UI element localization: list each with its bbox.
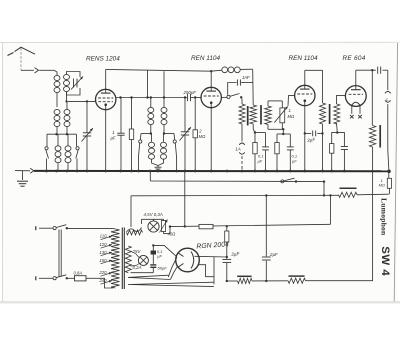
wire bus to rail3	[184, 171, 186, 228]
label 4.5V 0.3A	[144, 212, 163, 217]
svg-text:µF: µF	[157, 253, 162, 258]
svg-text:REN 1104: REN 1104	[289, 55, 318, 62]
secondary HV upper	[128, 275, 171, 279]
coil L7 RF primary	[148, 98, 154, 134]
wire anode rail L1	[106, 69, 211, 71]
capacitor C12 2uF	[222, 257, 231, 282]
wire rail2	[131, 194, 339, 196]
wire B rail c	[306, 280, 373, 282]
label 1A	[235, 147, 240, 152]
mains switch top	[39, 225, 68, 230]
wire 25V taps	[131, 251, 140, 266]
svg-text:MΩ: MΩ	[199, 134, 206, 139]
coil L9 wave band2	[149, 134, 159, 166]
wire 25V bottom	[131, 272, 154, 274]
coil L3 stage1	[54, 109, 60, 134]
resistor R2 2M grid leak	[193, 98, 197, 171]
label 0.1 uF c	[157, 249, 163, 258]
transformer core	[122, 228, 124, 290]
coil L8 RF secondary	[161, 71, 167, 133]
wire rail1	[150, 180, 324, 183]
wire V1 anode	[105, 69, 107, 89]
svg-text:RENS 1204: RENS 1204	[86, 56, 120, 63]
coil L5 wave band	[55, 134, 61, 171]
wire V4 anode	[356, 69, 374, 86]
label SW 4	[379, 246, 391, 276]
wire screen rail	[116, 96, 187, 98]
wire fuse to winding	[99, 278, 114, 288]
wire lamp feed	[127, 228, 142, 233]
switch S2b	[173, 134, 177, 171]
switch S3 regen	[221, 94, 242, 100]
filter resistor R13	[288, 276, 306, 283]
label 250pF	[183, 90, 197, 95]
wire rail1 to rail2	[323, 180, 325, 195]
wire V2 anode	[210, 70, 212, 87]
svg-text:1: 1	[289, 108, 291, 113]
transformer T2b core b	[260, 105, 262, 125]
ground symbol	[15, 171, 30, 187]
capacitor C9 2uF coupling	[305, 131, 323, 137]
label Lumophon	[380, 198, 389, 236]
switch S1a	[45, 134, 49, 171]
scan top edge	[0, 41, 400, 43]
capacitor C13 2uF	[262, 194, 271, 282]
coil L2 antenna secondary	[64, 72, 81, 96]
antenna plug	[35, 68, 55, 73]
svg-text:REN 1104: REN 1104	[191, 55, 220, 62]
wire rail2 right	[357, 193, 389, 196]
trimmer capacitor C1	[71, 77, 83, 90]
coil L1 antenna primary	[54, 75, 60, 107]
variable capacitor C4 tuning2	[180, 98, 191, 171]
label RGN 2004	[196, 241, 229, 250]
wire rail3	[170, 224, 331, 226]
capacitor C6 1nF	[228, 79, 253, 94]
coil L10 wave band2	[158, 134, 167, 166]
label 1nF	[242, 75, 250, 80]
secondary 25V	[125, 246, 131, 273]
ground stage2 coils	[155, 166, 162, 171]
fuse F1 1A	[239, 143, 245, 171]
wire lamp to RGN	[153, 245, 177, 256]
switch S2a	[138, 134, 142, 171]
label 25V	[132, 249, 142, 254]
coil L11 det primary	[250, 105, 257, 133]
wire to antenna coil	[54, 70, 57, 75]
wire AF loop	[268, 101, 283, 129]
svg-text:1nF: 1nF	[242, 75, 250, 80]
label 0.1uF b	[292, 154, 298, 164]
wire RGN anode leads	[168, 257, 178, 279]
scan bottom edge	[0, 301, 400, 304]
tube V4 RE 604	[345, 86, 366, 107]
wire rail2 left drop	[130, 196, 132, 227]
wire AF loop top	[267, 101, 269, 106]
lamp wiring	[142, 219, 172, 233]
svg-text:1: 1	[381, 179, 383, 183]
capacitor C10 output	[372, 67, 380, 74]
svg-text:25V: 25V	[132, 249, 142, 254]
tube V2 REN 1104	[201, 87, 221, 107]
divider resistor R7	[339, 188, 358, 197]
potentiometer P1 1M	[274, 101, 287, 129]
ground bus	[34, 170, 389, 172]
resistor R4	[253, 133, 257, 171]
mains plug top	[35, 226, 37, 230]
label 0.8A	[74, 271, 83, 276]
wire bias pair2 feed	[282, 128, 284, 135]
wire anode drop	[147, 70, 149, 97]
svg-text:µF: µF	[258, 159, 263, 164]
tube V5 RGN 2004	[176, 248, 200, 272]
scan page area	[3, 43, 398, 303]
resistor R10 feed	[199, 224, 213, 228]
svg-text:MΩ: MΩ	[288, 114, 295, 119]
wire secondary to grid rail	[65, 92, 67, 103]
label 0.1uF a	[258, 154, 264, 164]
label 0.2A	[133, 265, 142, 270]
resistor R11	[225, 225, 229, 258]
capacitor C3 1uF	[117, 98, 124, 171]
filter resistor R12	[237, 276, 252, 283]
label REN 1104 det	[191, 55, 220, 62]
svg-text:1A: 1A	[235, 147, 240, 152]
speaker choke	[369, 70, 375, 281]
transformer primary top	[68, 227, 116, 230]
antenna	[8, 47, 36, 70]
label REN 1104 af	[289, 55, 318, 62]
switch link	[59, 230, 61, 277]
label 1 MOhm pot	[288, 108, 295, 119]
wire antenna lead	[21, 69, 34, 71]
label 2 MOhm	[198, 129, 206, 139]
transformer T2b core a	[247, 106, 249, 125]
wire V3 anode	[305, 70, 323, 85]
mains plug bottom	[35, 276, 37, 280]
wire rail1 drop	[149, 171, 151, 181]
wire B rail b	[252, 280, 288, 282]
mains switch bottom	[39, 275, 68, 280]
resistor R3 screen	[239, 99, 245, 142]
scan right edge	[394, 43, 397, 302]
svg-text:SW 4: SW 4	[379, 246, 391, 276]
svg-text:µF: µF	[111, 136, 116, 141]
label RE 604	[343, 55, 366, 62]
speaker jack	[383, 70, 391, 171]
label 2uF b	[230, 251, 241, 257]
svg-text:120: 120	[99, 242, 107, 247]
transformer T3 primary	[320, 70, 326, 171]
resistor R8 1M	[387, 171, 391, 194]
resistor R5	[275, 134, 284, 171]
capacitor C8 0.1uF	[283, 134, 293, 171]
svg-text:240: 240	[98, 278, 107, 283]
scan left edge	[1, 43, 3, 302]
transformer primary	[111, 229, 119, 288]
node stage2 coil taps	[141, 132, 174, 134]
wire V2 cathode	[210, 108, 212, 171]
transformer T3 core	[329, 104, 331, 124]
svg-text:RE 604: RE 604	[343, 55, 366, 62]
label RENS 1204	[86, 56, 120, 63]
speaker choke core	[379, 125, 381, 148]
wire grid rail stage1	[68, 100, 96, 102]
capacitor C5 250pF	[188, 94, 202, 101]
svg-text:Lumophon: Lumophon	[380, 198, 389, 236]
svg-text:1: 1	[112, 130, 114, 135]
svg-text:110: 110	[100, 234, 107, 239]
wire V4 filament legs	[352, 106, 360, 114]
capacitor C15 50uF	[150, 265, 156, 273]
lamp LP1	[148, 221, 159, 232]
tube V1 RENS 1204	[96, 89, 116, 109]
rheostat R9 40ohm	[160, 220, 168, 233]
svg-text:150: 150	[99, 258, 107, 263]
svg-text:220: 220	[98, 270, 107, 275]
filament pin x2	[358, 115, 362, 118]
label 2uF a	[306, 137, 317, 143]
lamp LP2	[138, 255, 148, 265]
wire pot wiper to grid	[288, 96, 294, 106]
wire RGN filament leads	[195, 256, 227, 284]
label 1 MOhm	[379, 179, 385, 188]
coil L12 det secondary	[265, 106, 272, 125]
label 40ohm	[168, 232, 177, 237]
switch S4	[281, 178, 297, 183]
switch S1b	[76, 134, 79, 171]
bus plug	[30, 168, 34, 173]
fuse F2 0.8A	[68, 276, 99, 281]
coil L4 stage1	[64, 101, 70, 134]
resistor R1	[129, 98, 133, 171]
capacitor C14 0.1uF	[151, 244, 156, 264]
label 50uF	[158, 266, 168, 271]
svg-text:130: 130	[99, 250, 107, 255]
svg-text:0,8A: 0,8A	[74, 271, 83, 276]
svg-text:µF: µF	[292, 159, 297, 164]
label 2uF c	[269, 252, 278, 257]
svg-text:4,5V 0,3A: 4,5V 0,3A	[144, 212, 163, 217]
wire V3 cathode	[304, 106, 306, 171]
label 1uF	[111, 130, 116, 140]
choke Dr1	[211, 67, 252, 73]
bus junctions	[45, 170, 391, 174]
filament pin x1	[350, 115, 354, 118]
tube V3 REN 1104	[295, 85, 315, 105]
coil L6 wave band	[65, 134, 71, 171]
secondary HV lower	[128, 282, 214, 286]
wire B rail a	[227, 280, 238, 282]
wire plate feed down	[252, 69, 255, 105]
svg-text:250pF: 250pF	[183, 90, 197, 95]
variable capacitor C2 tuning	[82, 101, 93, 170]
wire rail3 riser	[329, 194, 331, 224]
secondary 4V top	[127, 230, 143, 235]
svg-text:2µF: 2µF	[269, 252, 278, 257]
transformer T3 secondary	[334, 96, 345, 134]
RE604 bias capacitor C11	[337, 133, 348, 171]
svg-text:50µF: 50µF	[158, 266, 168, 271]
RE604 bias resistor R6	[330, 133, 338, 171]
svg-text:MΩ: MΩ	[379, 184, 385, 188]
transformer taps	[98, 234, 112, 285]
wire V1 cathode to bus	[105, 110, 107, 171]
node stage1 coil bus	[47, 133, 77, 135]
capacitor C7 0.1uF	[254, 131, 269, 171]
